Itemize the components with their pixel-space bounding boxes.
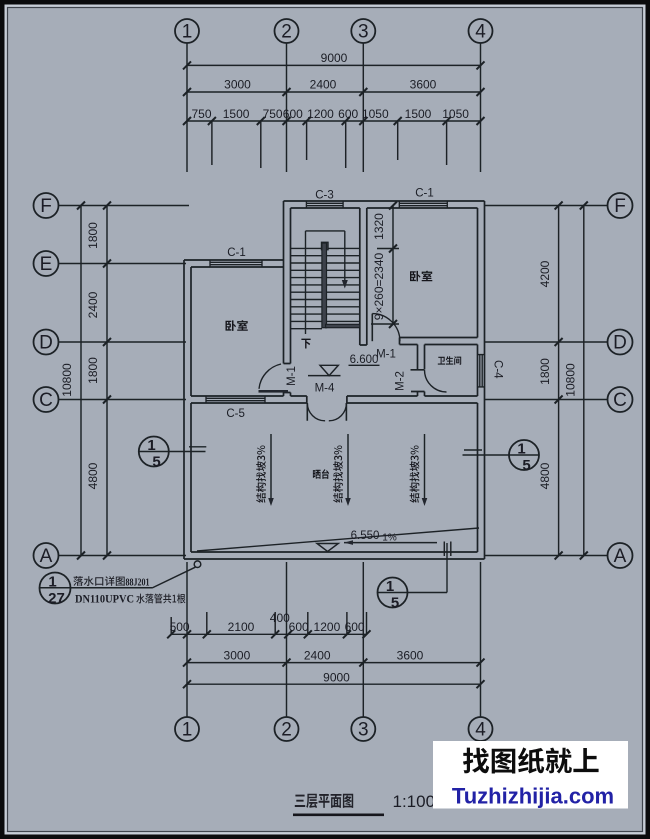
svg-text:M-2: M-2: [395, 371, 407, 391]
svg-text:3: 3: [358, 22, 369, 43]
svg-text:5: 5: [152, 454, 160, 471]
svg-text:500: 500: [170, 620, 190, 634]
svg-text:1: 1: [48, 574, 56, 591]
svg-text:3000: 3000: [224, 649, 251, 663]
svg-text:1320: 1320: [372, 213, 386, 240]
svg-text:M-1: M-1: [286, 366, 298, 386]
svg-text:1: 1: [517, 441, 525, 458]
svg-text:C-4: C-4: [492, 360, 504, 379]
svg-text:3000: 3000: [224, 78, 251, 92]
svg-text:2400: 2400: [86, 291, 100, 318]
svg-text:C-1: C-1: [415, 188, 434, 200]
svg-text:1200: 1200: [307, 107, 334, 121]
svg-text:88J201: 88J201: [126, 577, 150, 589]
svg-text:1050: 1050: [442, 107, 469, 121]
svg-text:M-1: M-1: [376, 349, 396, 361]
svg-text:D: D: [39, 333, 53, 354]
svg-text:C-1: C-1: [227, 247, 246, 259]
svg-text:1500: 1500: [405, 107, 432, 121]
svg-text:1%: 1%: [382, 533, 397, 544]
svg-text:5: 5: [522, 457, 530, 474]
svg-text:3600: 3600: [397, 649, 424, 663]
svg-text:1:100: 1:100: [393, 792, 436, 811]
svg-text:2400: 2400: [310, 78, 337, 92]
svg-text:600: 600: [283, 107, 303, 121]
svg-text:4800: 4800: [86, 462, 100, 489]
svg-text:9×260=2340: 9×260=2340: [372, 252, 386, 320]
svg-text:Tuzhizhijia.com: Tuzhizhijia.com: [452, 784, 614, 809]
svg-text:2: 2: [281, 22, 292, 43]
svg-text:4: 4: [475, 720, 486, 741]
svg-text:1: 1: [182, 22, 193, 43]
svg-text:1050: 1050: [362, 107, 389, 121]
svg-text:4200: 4200: [538, 260, 552, 287]
svg-text:400: 400: [270, 611, 290, 625]
svg-text:4: 4: [475, 22, 486, 43]
svg-text:1800: 1800: [86, 222, 100, 249]
svg-text:6.550: 6.550: [351, 530, 380, 542]
svg-text:750: 750: [191, 107, 211, 121]
svg-text:4800: 4800: [538, 462, 552, 489]
svg-text:1: 1: [147, 437, 155, 454]
svg-text:A: A: [40, 546, 53, 567]
svg-text:C: C: [613, 390, 627, 411]
svg-text:C: C: [39, 390, 53, 411]
svg-text:F: F: [614, 196, 626, 217]
svg-text:600: 600: [345, 620, 365, 634]
svg-text:2400: 2400: [304, 649, 331, 663]
svg-text:750: 750: [263, 107, 283, 121]
svg-text:27: 27: [48, 590, 65, 607]
svg-text:5: 5: [391, 595, 399, 612]
svg-text:1800: 1800: [86, 357, 100, 384]
svg-text:D: D: [613, 333, 627, 354]
svg-text:2100: 2100: [228, 620, 255, 634]
svg-text:9000: 9000: [321, 51, 348, 65]
svg-text:9000: 9000: [323, 671, 350, 685]
svg-text:6.600: 6.600: [350, 354, 379, 366]
svg-text:3600: 3600: [410, 78, 437, 92]
svg-text:2: 2: [281, 720, 292, 741]
svg-text:1500: 1500: [223, 107, 250, 121]
svg-text:1: 1: [386, 578, 394, 595]
svg-text:M-4: M-4: [315, 383, 335, 395]
svg-text:600: 600: [338, 107, 358, 121]
svg-text:1800: 1800: [538, 358, 552, 385]
svg-text:F: F: [40, 196, 52, 217]
svg-text:600: 600: [289, 620, 309, 634]
svg-text:A: A: [614, 546, 627, 567]
svg-text:DN110UPVC: DN110UPVC: [75, 594, 134, 606]
svg-text:10800: 10800: [60, 363, 74, 397]
svg-text:C-5: C-5: [226, 408, 245, 420]
svg-text:E: E: [40, 254, 53, 275]
svg-text:1: 1: [182, 720, 193, 741]
svg-text:3: 3: [358, 720, 369, 741]
svg-text:C-3: C-3: [315, 190, 334, 202]
svg-text:1200: 1200: [314, 620, 341, 634]
svg-text:10800: 10800: [564, 363, 578, 397]
